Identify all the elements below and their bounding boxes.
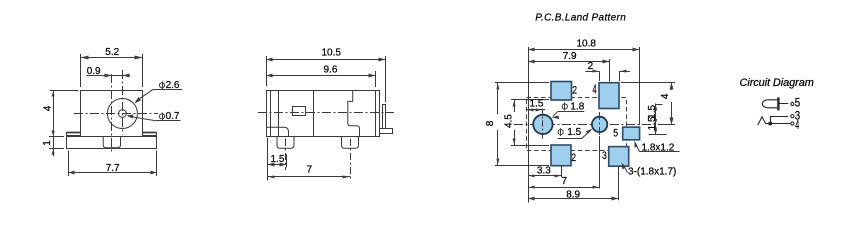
ext pad2b center — [561, 167, 563, 178]
extension line pad4 center — [609, 59, 611, 82]
terminal 4 circle — [791, 122, 794, 125]
leader phi2.6 — [153, 89, 183, 91]
leader 1.8x1.2 — [640, 151, 680, 153]
right leg centerline — [350, 139, 352, 180]
right leg — [342, 136, 359, 148]
svg-text:4.5: 4.5 — [504, 114, 515, 128]
dim 4 line — [50, 90, 78, 92]
right solder ear — [143, 133, 157, 136]
horizontal centerline of pattern — [514, 124, 658, 126]
svg-text:P.C.B.Land Pattern: P.C.B.Land Pattern — [535, 12, 626, 23]
leader phi1.5 — [558, 138, 583, 140]
pad2 bottom square — [551, 145, 571, 166]
bushing outer circle phi2.6 — [107, 99, 137, 129]
dim 9.6 line — [266, 75, 375, 77]
svg-text:2: 2 — [571, 152, 576, 164]
svg-text:9.6: 9.6 — [324, 65, 338, 76]
svg-text:Circuit Diagram: Circuit Diagram — [740, 77, 814, 89]
svg-text:8: 8 — [485, 120, 496, 126]
svg-text:7: 7 — [307, 165, 313, 176]
svg-text:4: 4 — [795, 119, 799, 133]
wire terminal 3 — [770, 116, 788, 118]
svg-text:2: 2 — [572, 84, 577, 96]
dim 1.5 line — [267, 164, 286, 166]
dim 8 line (left) — [497, 83, 499, 114]
dim 8.9 line — [528, 198, 619, 200]
svg-text:0.9: 0.9 — [87, 66, 101, 77]
circle2 vertical crosshair / ext to dim 7 — [599, 112, 601, 136]
svg-text:7.7: 7.7 — [106, 163, 120, 174]
dim 10.5 line — [266, 59, 386, 61]
pad2 top square — [551, 82, 572, 101]
body vertical centerline — [111, 74, 113, 154]
phi symbol for 2.6 — [159, 83, 164, 88]
junction dot — [769, 122, 772, 125]
dim 0.9 line — [87, 75, 131, 77]
rear wall line — [375, 90, 377, 136]
circle vertical centerline — [122, 70, 124, 135]
dim 10.8 line — [528, 49, 640, 51]
svg-text:0.7: 0.7 — [166, 111, 180, 122]
centerline extension right — [658, 124, 675, 126]
dim 1.5+1.5 chain (right) — [655, 104, 657, 135]
svg-text:8.9: 8.9 — [566, 189, 580, 200]
dim 2 extension lines — [599, 71, 601, 81]
mid wall line — [313, 90, 315, 136]
phi symbol for 1.8 — [562, 104, 567, 109]
left common extension line — [528, 47, 530, 203]
dim 9.6 extension line — [375, 71, 377, 87]
dim 10.5 extension lines — [266, 56, 268, 86]
svg-text:3-(1.8x1.7): 3-(1.8x1.7) — [628, 167, 676, 178]
svg-text:4: 4 — [593, 84, 597, 98]
svg-text:1: 1 — [42, 140, 53, 146]
center pin symbol — [762, 100, 778, 108]
svg-text:1.5: 1.5 — [567, 127, 581, 138]
pad5 small rect — [623, 127, 640, 140]
svg-text:5: 5 — [795, 97, 800, 110]
jack body front face — [81, 91, 143, 137]
dim 5.2 line — [81, 57, 142, 59]
wire 3 down to sleeve — [770, 116, 772, 124]
left leg centerline — [285, 139, 287, 170]
svg-text:7.9: 7.9 — [563, 51, 577, 62]
svg-text:5.2: 5.2 — [105, 47, 119, 58]
pad4 square — [599, 83, 619, 109]
terminal 5 circle — [791, 102, 794, 105]
bottom-left notch — [266, 127, 289, 136]
dim 2 line with outside arrows — [585, 71, 599, 73]
front face inner line — [270, 90, 272, 136]
circle horizontal centerline — [74, 113, 158, 115]
dim 3.3 line — [528, 175, 561, 177]
dim 7.7 extension lines — [68, 151, 70, 177]
phi symbol for 1.5 — [558, 130, 563, 135]
left solder ear — [67, 133, 81, 136]
svg-text:5: 5 — [613, 128, 618, 140]
svg-text:1.5: 1.5 — [530, 98, 544, 109]
locating tab under body — [103, 137, 120, 148]
pad hole circle phi1.8 — [533, 115, 552, 134]
right extension line (pad5 edge) — [639, 47, 641, 125]
svg-text:2.6: 2.6 — [166, 80, 180, 91]
svg-text:4: 4 — [660, 93, 671, 99]
pin end bar — [777, 97, 779, 110]
wire pin to terminal 5 — [779, 103, 788, 105]
base flange plate — [67, 137, 157, 149]
svg-text:1.8x1.2: 1.8x1.2 — [642, 142, 675, 153]
terminal 3 circle — [791, 115, 794, 118]
footprint dashed outline — [527, 98, 627, 151]
rear terminal pin — [383, 105, 386, 129]
dim 7 line — [267, 176, 350, 178]
dim 7 line — [528, 187, 600, 189]
leader phi0.7 — [157, 120, 181, 122]
dim 1.5 extension lines — [267, 138, 269, 181]
dim 4.5 line (left) — [514, 100, 516, 112]
sleeve spring contact — [758, 117, 791, 126]
dim 1 line — [49, 148, 64, 150]
rear foot pad — [380, 129, 393, 134]
dim 7.9 line — [528, 61, 609, 63]
dim 1.5 left (edge to circle center) — [526, 109, 545, 111]
svg-text:4: 4 — [43, 105, 54, 111]
ext pad3 center — [618, 167, 620, 200]
leader 3-(1.8x1.7) — [623, 165, 628, 173]
dim 4 line (right) — [621, 82, 675, 84]
switch contact contour — [348, 90, 360, 136]
leader phi1.8 — [558, 111, 585, 113]
pad hole circle phi1.5 — [592, 117, 607, 132]
circle1 vertical crosshair — [542, 109, 544, 140]
phi symbol for 0.7 — [159, 114, 164, 119]
svg-text:10.5: 10.5 — [322, 48, 342, 59]
svg-text:1.5: 1.5 — [271, 154, 285, 165]
contact window — [293, 107, 306, 116]
svg-text:2: 2 — [588, 61, 594, 72]
svg-text:3: 3 — [602, 150, 607, 162]
side body outline — [267, 91, 380, 137]
svg-text:10.8: 10.8 — [577, 38, 597, 49]
svg-text:3.3: 3.3 — [537, 166, 551, 177]
pad3 square — [609, 147, 629, 167]
dim 5.2 extension lines — [80, 54, 82, 87]
svg-text:1.5: 1.5 — [647, 116, 658, 130]
dim 7.7 line — [68, 172, 157, 174]
horizontal centerline — [258, 112, 394, 114]
svg-text:1.8: 1.8 — [570, 101, 584, 112]
left leg — [277, 136, 294, 148]
center pin circle phi0.7 — [119, 110, 127, 118]
inner wall line — [278, 90, 280, 136]
svg-text:7: 7 — [562, 176, 568, 187]
